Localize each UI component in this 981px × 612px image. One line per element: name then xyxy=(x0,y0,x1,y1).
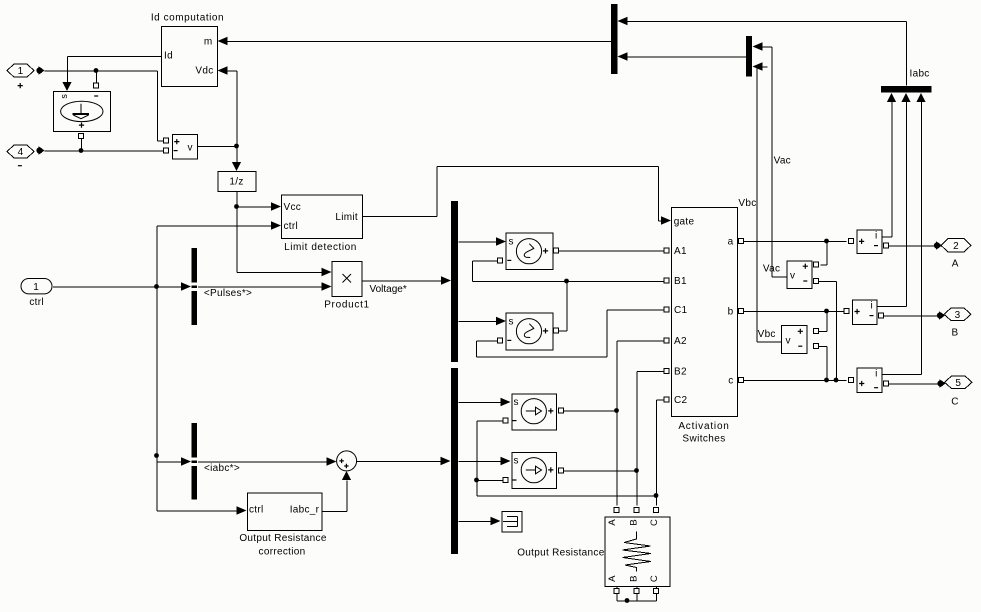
input port 1 xyxy=(7,64,45,88)
wire Vbc output up to mux2 xyxy=(738,62,781,342)
wire ctrl rail down xyxy=(154,287,246,515)
node junction a wire to Vac+ xyxy=(821,239,829,265)
svg-text:v: v xyxy=(786,336,791,347)
svg-text:s: s xyxy=(514,397,519,408)
svg-text:Limit: Limit xyxy=(335,212,358,223)
wire a to current measurement 1 xyxy=(744,241,847,243)
svg-text:gate: gate xyxy=(674,217,695,228)
mux Iabc bar xyxy=(881,69,932,93)
wire demux to DC source1 s xyxy=(459,398,511,407)
svg-text:C: C xyxy=(951,396,959,407)
svg-text:Vbc: Vbc xyxy=(738,198,756,209)
subsystem Limit detection xyxy=(282,195,363,253)
voltage measurement Vbc xyxy=(758,326,819,354)
selector iabc xyxy=(191,423,240,500)
port squares Activation Switches right xyxy=(739,239,744,383)
voltage measurement Vac xyxy=(763,261,819,289)
input port 4 xyxy=(7,145,45,166)
svg-text:correction: correction xyxy=(259,546,306,557)
label Vac on wire xyxy=(774,155,791,166)
svg-text:A: A xyxy=(607,575,618,582)
wire voltage mux to top mux xyxy=(618,52,747,61)
selector Pulses xyxy=(191,248,252,325)
node junction at v output xyxy=(232,144,241,171)
wire ctrl to Pulses selector xyxy=(53,282,191,291)
mux bar top left xyxy=(611,4,618,74)
output port 2 xyxy=(941,239,971,270)
svg-text:s: s xyxy=(509,316,514,327)
wire sum to mux lower xyxy=(357,457,450,466)
wire demux to scope block xyxy=(459,517,501,526)
controlled current source DC2 xyxy=(503,453,563,489)
svg-text:2: 2 xyxy=(953,241,959,252)
svg-text:A2: A2 xyxy=(674,336,687,347)
wire Vac output up to mux2 xyxy=(753,42,787,277)
demux bar upper xyxy=(451,201,458,362)
svg-text:m: m xyxy=(204,37,213,48)
wire demux to DC source2 s xyxy=(459,457,511,466)
wire AC1 plus to A1 xyxy=(559,250,665,252)
subsystem Activation Switches xyxy=(672,208,738,445)
svg-text:1: 1 xyxy=(33,282,39,293)
svg-text:Activation: Activation xyxy=(678,421,729,432)
output port 3 xyxy=(944,308,971,338)
wire i2 to port 3 xyxy=(884,311,945,319)
wire i3 signal to Iabc mux xyxy=(882,93,926,375)
wire i2 signal to Iabc mux xyxy=(877,93,911,307)
svg-text:ctrl: ctrl xyxy=(249,505,264,516)
node junction below 1/z xyxy=(234,204,331,276)
svg-text:s: s xyxy=(509,236,514,247)
svg-text:v: v xyxy=(188,142,193,153)
svg-text:<iabc*>: <iabc*> xyxy=(204,463,240,474)
wire Limit output to gate xyxy=(363,167,672,225)
wire b to current measurement 2 xyxy=(744,311,845,313)
mux bar voltages xyxy=(746,36,752,77)
svg-text:Vdc: Vdc xyxy=(195,66,213,77)
wires Output Resistance bottom neutral xyxy=(614,587,659,603)
svg-text:Output Resistance: Output Resistance xyxy=(239,533,327,544)
svg-text:Limit detection: Limit detection xyxy=(284,242,357,253)
output port 5 xyxy=(945,376,973,407)
svg-text:Iabc_r: Iabc_r xyxy=(290,505,320,516)
wire i3 to port 5 xyxy=(889,379,946,387)
wire port1 to v+ branch xyxy=(45,71,165,141)
svg-text:b: b xyxy=(728,307,734,318)
wire Vbc minus to c wire xyxy=(819,347,829,383)
port squares Activation Switches left xyxy=(664,248,669,402)
three-phase resistor Output Resistance xyxy=(517,517,670,587)
wire Pulses to Product1 xyxy=(198,282,332,291)
wire c to current measurement 3 xyxy=(744,380,847,382)
wire m input xyxy=(218,37,612,46)
svg-text:A: A xyxy=(607,519,618,526)
demux bar lower xyxy=(451,368,458,554)
wire Iabc_r to sum xyxy=(322,471,351,512)
current measurement i2 xyxy=(844,300,884,325)
svg-text:1: 1 xyxy=(18,66,24,77)
svg-text:Switches: Switches xyxy=(682,433,725,444)
svg-text:i: i xyxy=(875,230,878,241)
svg-text:Output Resistance: Output Resistance xyxy=(517,548,605,559)
terminator block xyxy=(502,512,522,532)
unit delay 1/z xyxy=(218,172,256,192)
wire AC2 minus to C1 xyxy=(477,310,665,357)
svg-text:Product1: Product1 xyxy=(324,300,370,311)
svg-text:Vcc: Vcc xyxy=(284,202,302,213)
svg-text:i: i xyxy=(871,300,874,311)
svg-text:A1: A1 xyxy=(674,246,687,257)
AC voltage source 1 xyxy=(498,233,559,269)
wire DC minus bus to C2 and Output Resistance C xyxy=(474,400,664,513)
svg-text:s: s xyxy=(59,94,69,99)
node junction B1 wire xyxy=(559,279,569,331)
subsystem Output Resistance correction xyxy=(239,493,327,557)
svg-text:B1: B1 xyxy=(674,276,687,287)
sum block xyxy=(337,451,357,471)
node ctrl rail junction xyxy=(154,221,281,289)
svg-text:B2: B2 xyxy=(674,367,687,378)
current measurement i3 xyxy=(849,368,889,393)
svg-text:5: 5 xyxy=(955,378,961,389)
wire port4 to v- xyxy=(45,150,165,152)
node junction b wire to Vbc+ xyxy=(816,309,829,332)
wire iabc to sum xyxy=(198,457,337,466)
node junction on port4 wire xyxy=(79,134,84,153)
svg-text:C: C xyxy=(649,519,660,526)
svg-text:Vac: Vac xyxy=(774,155,791,166)
wire i1 signal to Iabc mux xyxy=(882,93,896,237)
wire Iabc feedback to mux xyxy=(618,17,907,86)
svg-text:Voltage*: Voltage* xyxy=(370,284,407,295)
svg-text:i: i xyxy=(875,368,878,379)
wire DC2 plus to B2 and Output Resistance B xyxy=(564,372,665,513)
controlled current source xyxy=(54,92,111,132)
wire Id output to current source xyxy=(62,57,161,92)
svg-text:C2: C2 xyxy=(674,395,688,406)
wire demux to AC source2 s xyxy=(459,317,507,326)
node junction on port1 wire xyxy=(94,68,99,88)
svg-text:B: B xyxy=(952,327,959,338)
svg-text:ctrl: ctrl xyxy=(284,221,299,232)
svg-text:<Pulses*>: <Pulses*> xyxy=(204,288,252,299)
svg-text:ctrl: ctrl xyxy=(29,297,44,308)
svg-text:s: s xyxy=(514,456,519,467)
subsystem block Id computation xyxy=(151,13,224,87)
wire Voltage* to demux xyxy=(362,276,451,295)
svg-text:A: A xyxy=(952,258,959,269)
controlled current source DC1 xyxy=(503,394,563,430)
wire demux to AC source1 s xyxy=(459,237,507,246)
current measurement i1 xyxy=(849,230,889,254)
wire 1/z output to Vcc and Product1 xyxy=(237,192,281,211)
svg-text:C1: C1 xyxy=(674,305,688,316)
wire AC1 minus to B1 xyxy=(473,261,665,282)
wire i1 to port 2 xyxy=(889,241,942,249)
svg-text:Iabc: Iabc xyxy=(910,69,930,80)
svg-text:Vbc: Vbc xyxy=(758,329,776,340)
svg-text:4: 4 xyxy=(18,147,24,158)
svg-text:a: a xyxy=(728,236,734,247)
svg-text:v: v xyxy=(790,270,795,281)
voltage measurement v xyxy=(164,135,198,160)
wire DC1 plus to A2 and Output Resistance A xyxy=(564,341,665,513)
svg-text:Id: Id xyxy=(164,51,173,62)
input port ctrl xyxy=(21,279,52,308)
wire v output to Vdc and 1/z xyxy=(198,66,238,146)
svg-text:B: B xyxy=(629,576,640,582)
svg-text:Id computation: Id computation xyxy=(151,13,224,24)
svg-text:C: C xyxy=(649,575,660,582)
svg-text:3: 3 xyxy=(955,310,961,321)
wire Vac minus to c wire xyxy=(819,282,838,383)
AC voltage source 2 xyxy=(498,313,559,350)
svg-text:1/z: 1/z xyxy=(229,177,243,188)
multiplier Product1 xyxy=(324,262,370,311)
svg-text:B: B xyxy=(629,519,640,525)
svg-text:c: c xyxy=(728,376,733,387)
